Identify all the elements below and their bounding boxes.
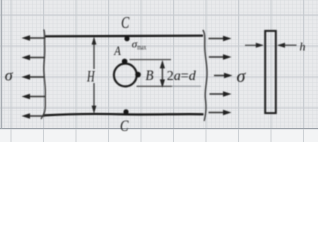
svg-text:σ: σ xyxy=(237,66,247,86)
svg-text:h: h xyxy=(300,40,306,54)
svg-text:A: A xyxy=(113,43,120,58)
svg-text:C: C xyxy=(120,118,129,135)
svg-text:C: C xyxy=(121,13,130,32)
svg-text:σ: σ xyxy=(5,68,14,85)
svg-text:max: max xyxy=(137,43,146,52)
svg-text:H: H xyxy=(86,69,95,86)
svg-text:2a=d: 2a=d xyxy=(167,69,197,84)
svg-text:B: B xyxy=(146,68,154,84)
